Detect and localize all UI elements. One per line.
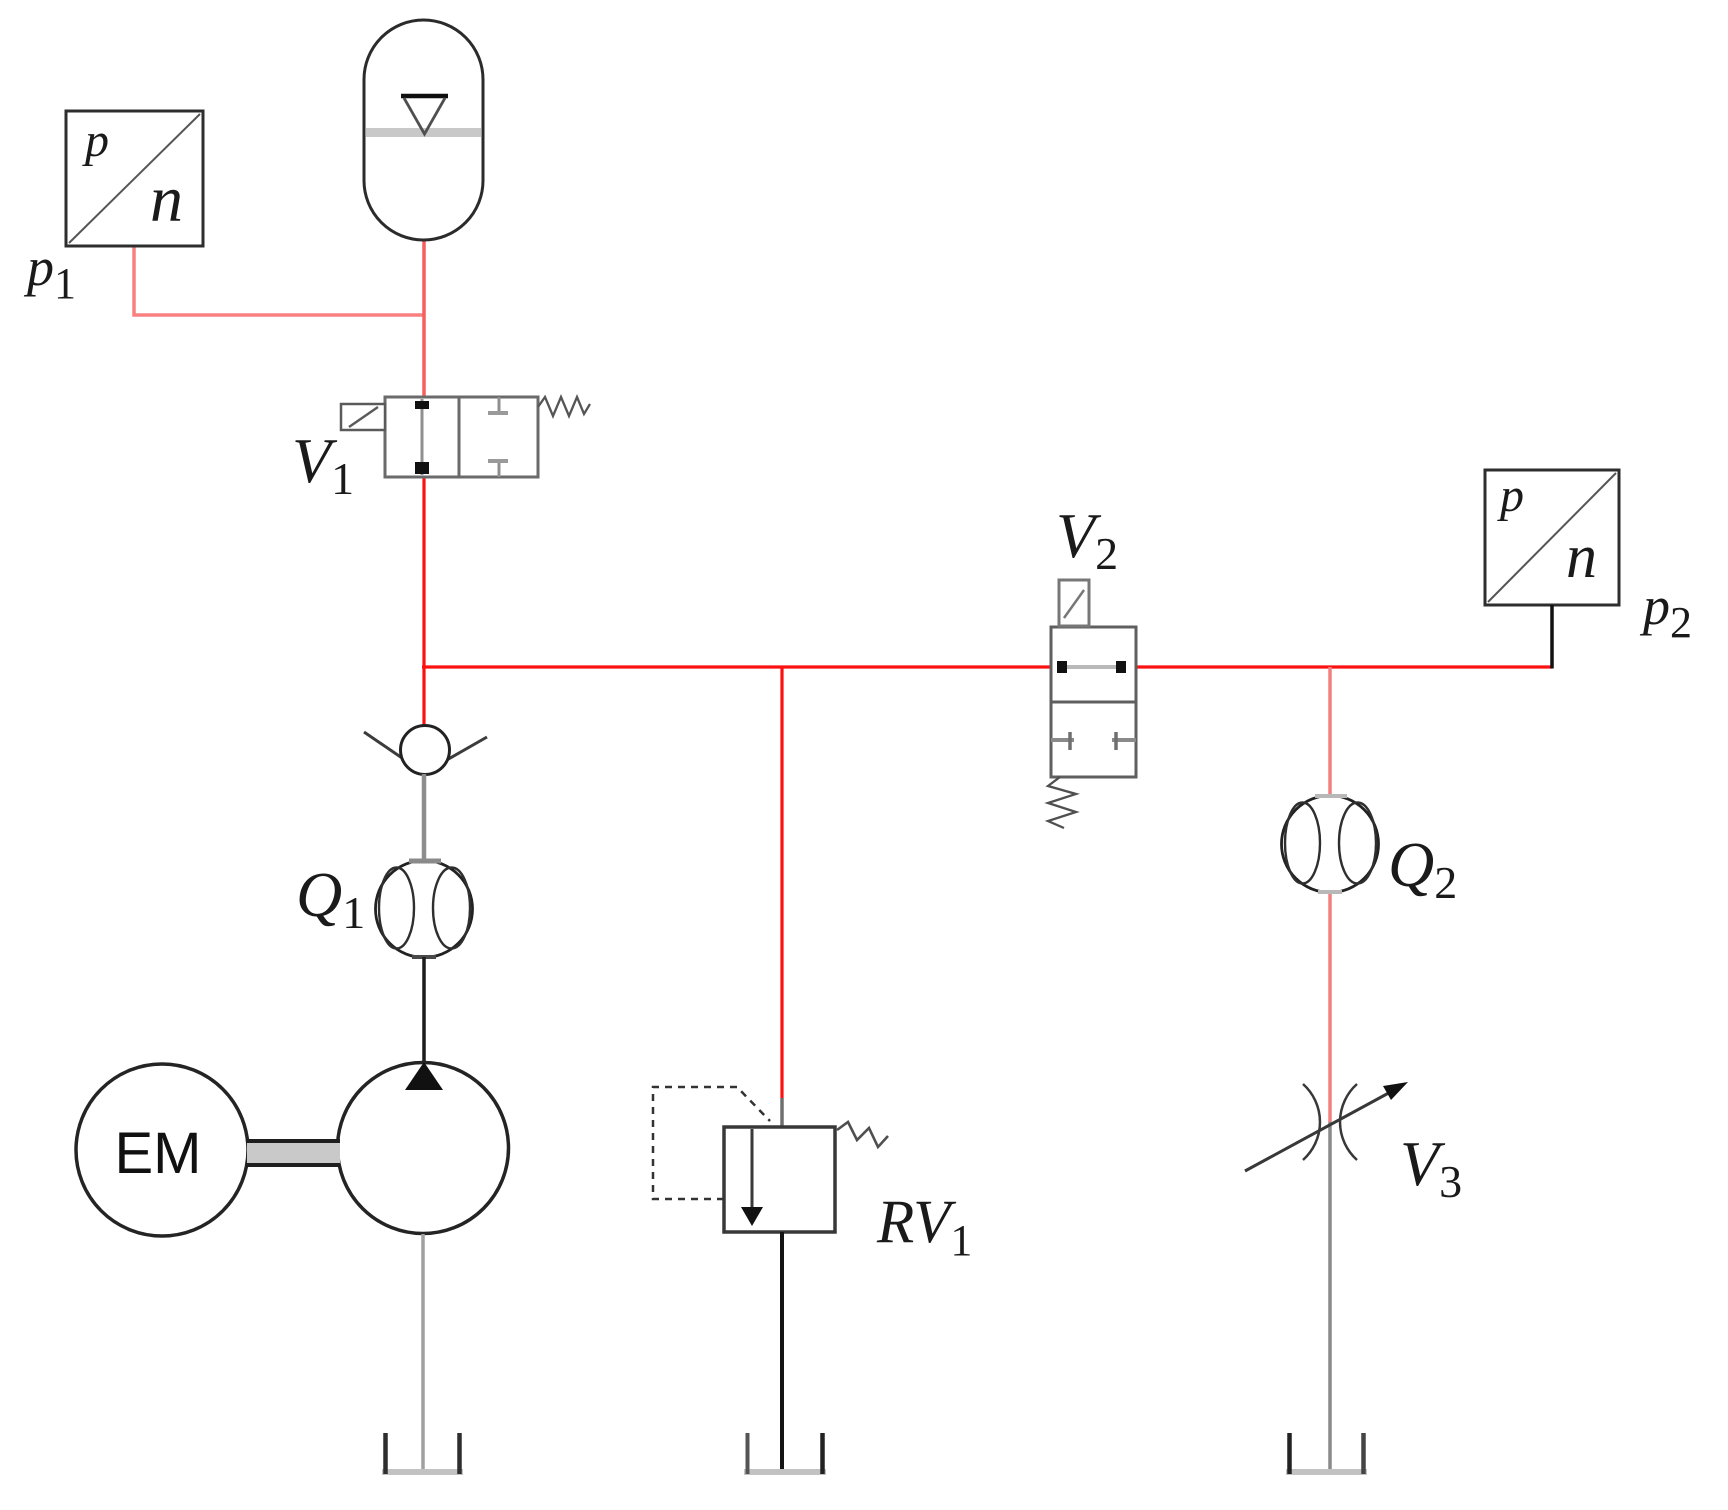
V2 spring [1048,777,1076,828]
wire branch to flow meter Q2 (light red) [1328,667,1332,797]
pump [338,1062,509,1234]
V2 closed ports [1051,738,1074,742]
wire V3 to tank 3 (gray) [1328,1122,1332,1471]
V1 solenoid [341,404,385,430]
throttle valve V3 [1245,1082,1408,1171]
wire main pressure bus (bright red) [422,665,1552,668]
svg-text:p: p [1497,469,1524,522]
wire branch to relief valve RV1 (bright red) [780,667,783,1098]
svg-text:EM: EM [115,1121,202,1186]
wire Q1 to pump (black) [422,957,426,1066]
pressure sensor p1 [66,111,203,246]
electric motor EM [76,1064,248,1236]
wire p2 sensor down to bus (black) [1550,605,1554,669]
pressure sensor p2 [1485,469,1619,605]
wire pump to tank 1 (gray) [421,1234,425,1471]
flow meter Q2 [1282,796,1379,893]
wire RV1 to tank 2 (black) [780,1232,784,1471]
svg-text:n: n [1566,523,1597,591]
wire p1 sensor to node A (light red) [134,246,424,315]
wire valve V1 to check valve (bright red) [422,474,425,728]
wire accumulator to valve V1 (medium red) [422,238,426,400]
V1 closed ports [498,397,501,413]
flow meter Q1 [376,861,473,958]
wire flow meter Q2 to throttle V3 (light red) [1328,891,1332,1122]
svg-text:p: p [82,114,109,167]
tank 3 [1286,1433,1367,1474]
check valve [364,726,487,775]
valve V1 [341,397,590,477]
V2 open path [1064,665,1122,669]
relief valve RV1 [653,1087,888,1232]
svg-text:n: n [150,163,183,236]
wire check valve to Q1 (gray) [422,774,427,862]
V2 solenoid [1059,580,1089,626]
accumulator [364,20,483,240]
V1 open path arrows [421,399,424,475]
V1 spring [538,397,590,416]
shaft [247,1142,340,1164]
valve V2 [1048,580,1136,828]
tank 1 [382,1433,463,1474]
tank 2 [744,1433,826,1474]
